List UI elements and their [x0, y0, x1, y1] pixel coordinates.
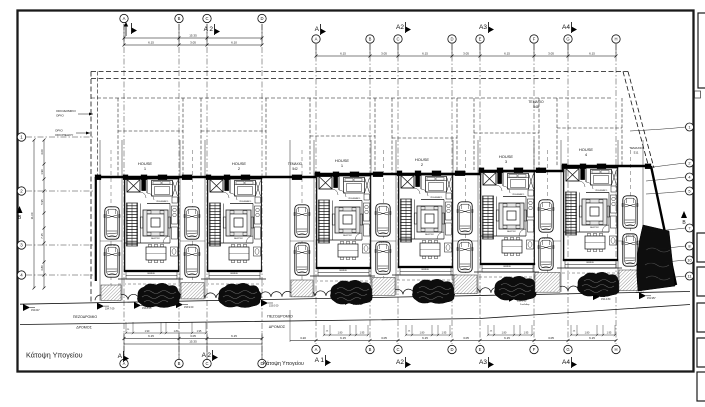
grid bubble C top (left block): [203, 14, 211, 22]
svg-text:6.15: 6.15: [422, 52, 428, 56]
plot boundary dashed diagonal (double): [628, 72, 654, 169]
grid bubble D top (left block): [258, 14, 266, 22]
grid bubble C bottom (left block): [203, 359, 211, 367]
wall pier: [562, 164, 567, 169]
svg-text:152.9 50: 152.9 50: [298, 243, 307, 245]
right grid bubble 7: [686, 224, 694, 232]
svg-text:6.15: 6.15: [148, 334, 154, 338]
svg-text:A4: A4: [562, 359, 570, 366]
svg-text:A: A: [315, 347, 318, 352]
yard dashed boundary house 6: [557, 127, 622, 129]
svg-text:3.05: 3.05: [381, 52, 387, 56]
grid bubble B top (right block): [366, 35, 374, 43]
svg-text:1.90: 1.90: [145, 330, 150, 333]
leader for right bubble 1: [630, 127, 686, 131]
leader for right bubble 11: [646, 276, 686, 279]
wall pier: [479, 168, 484, 173]
svg-text:A4: A4: [562, 24, 570, 31]
svg-text:Κάτοψη Υπογείου: Κάτοψη Υπογείου: [26, 351, 83, 360]
bottom micro dimension rows (right block): [324, 334, 368, 336]
svg-text:5: 5: [688, 189, 690, 194]
garden planting blob house 3: [330, 280, 373, 304]
svg-text:2: 2: [688, 161, 690, 166]
garden planting blob house 4: [412, 279, 455, 303]
grid line B (right block): [369, 44, 371, 344]
wall pier: [333, 172, 339, 177]
driveway edge lines gap 0: [99, 140, 101, 301]
svg-text:C: C: [396, 347, 399, 352]
parked car column 7 lower: [622, 234, 638, 266]
right grid bubble 11: [686, 272, 694, 280]
north arrow right: [681, 211, 687, 218]
svg-text:7: 7: [688, 226, 690, 231]
svg-text:15.35: 15.35: [189, 34, 197, 38]
grid bubble B top (left block): [175, 14, 183, 22]
left grid bubble 4: [17, 271, 25, 279]
svg-text:152.180: 152.180: [600, 289, 609, 291]
svg-text:3.20: 3.20: [300, 336, 306, 340]
wall pier: [415, 171, 421, 176]
svg-text:3.80: 3.80: [40, 265, 44, 271]
svg-text:A: A: [315, 26, 320, 33]
wall pier: [241, 175, 250, 180]
building limit dashed horizontal mid: [91, 97, 612, 99]
wall pier: [123, 175, 128, 180]
left grid line 3: [26, 244, 95, 246]
wall pier: [597, 164, 606, 169]
svg-text:154.047: 154.047: [31, 309, 40, 312]
garden planting blob house 1: [137, 283, 180, 307]
parked car column 4 upper: [375, 204, 391, 236]
svg-text:5.95: 5.95: [40, 199, 44, 205]
micro dim stubs right block: [323, 325, 325, 335]
spot level marker at x=183: [176, 301, 183, 308]
svg-text:6.15: 6.15: [589, 52, 595, 56]
svg-text:153.9 00: 153.9 00: [184, 306, 194, 309]
svg-text:ΟΙΚΟΠΕΔΟΥ: ΟΙΚΟΠΕΔΟΥ: [55, 133, 73, 137]
wall pier: [645, 164, 651, 169]
heavy stepped top boundary wall: [95, 166, 651, 177]
svg-text:D: D: [450, 347, 453, 352]
wall pier: [514, 168, 523, 173]
svg-text:8: 8: [688, 244, 690, 249]
right margin stacked box 4: [697, 338, 705, 367]
grid bubble F bottom (right block): [530, 345, 538, 353]
yard dashed boundary house 3: [310, 135, 375, 137]
driveway apron hatch gap 0: [101, 285, 121, 300]
svg-text:ΔΡΟΜΟΣ: ΔΡΟΜΟΣ: [269, 325, 286, 329]
parked car column 7 upper: [622, 196, 638, 228]
spot level marker at x=141: [134, 302, 141, 309]
heavy left boundary wall: [95, 177, 97, 281]
driveway apron hatch gap 6: [619, 270, 642, 291]
svg-text:6.15: 6.15: [340, 52, 346, 56]
garden planting blob house 5: [494, 276, 537, 300]
left grid bubble 3: [17, 241, 25, 249]
right grid bubble 4: [686, 173, 694, 181]
driveway apron hatch gap 3: [372, 278, 395, 296]
svg-text:ΟΡΙΟ: ΟΡΙΟ: [56, 114, 64, 118]
spot level marker at x=434: [427, 296, 434, 303]
spot level marker at x=30: [23, 304, 30, 311]
yard dashed boundary house 5: [474, 132, 539, 134]
house 5 floor plan: [480, 170, 535, 272]
grid bubble A top (left block): [120, 14, 128, 22]
right grid bubble 2: [686, 159, 694, 167]
spot level marker at x=646: [639, 292, 646, 299]
top dimension line (right block): [316, 55, 616, 57]
svg-text:D: D: [450, 37, 453, 42]
parked car column 6 lower: [538, 238, 554, 270]
svg-text:G: G: [566, 347, 569, 352]
grid bubble G top (right block): [564, 35, 572, 43]
wall pier: [397, 171, 402, 176]
svg-text:A 2: A 2: [202, 352, 212, 359]
svg-text:542: 542: [292, 167, 298, 171]
grid line C (left block): [206, 24, 208, 359]
spot level marker at x=600: [593, 293, 600, 300]
spot level marker at x=352: [345, 298, 352, 305]
svg-text:3.05: 3.05: [548, 336, 554, 340]
wall pier: [95, 175, 101, 180]
grid bubble E bottom (right block): [476, 345, 484, 353]
svg-text:ΠΕΖΟΔΡΟΜΙΟ: ΠΕΖΟΔΡΟΜΙΟ: [73, 315, 97, 319]
grid bubble C bottom (right block): [394, 345, 402, 353]
grid bubble B bottom (left block): [175, 359, 183, 367]
svg-text:1.80: 1.80: [585, 332, 590, 335]
leader for right bubble 8: [646, 246, 686, 250]
heavy diagonal right plot boundary: [651, 166, 676, 285]
wall pier: [350, 172, 359, 177]
right margin stacked box 3: [697, 303, 705, 332]
house 4 floor plan: [398, 173, 453, 275]
svg-text:E: E: [479, 37, 482, 42]
svg-text:11: 11: [687, 274, 691, 279]
svg-text:A: A: [123, 16, 126, 21]
svg-text:ΤΕΜΑΧΙΟ: ΤΕΜΑΧΙΟ: [629, 146, 643, 150]
grid line B (left block): [178, 24, 180, 359]
parked car column 1 lower: [104, 245, 120, 277]
driveway edge lines gap 2: [289, 140, 291, 297]
parked car column 2 upper: [184, 207, 200, 239]
svg-text:6.15: 6.15: [504, 52, 510, 56]
svg-text:H: H: [614, 347, 617, 352]
leader for right bubble 4: [646, 177, 686, 181]
svg-text:3.05: 3.05: [463, 52, 469, 56]
svg-text:1.95: 1.95: [197, 330, 202, 333]
grid line F (right block): [533, 44, 535, 344]
road edge line: [20, 305, 690, 325]
parked car column 5 lower: [457, 240, 473, 272]
svg-text:ΤΕΜΑΧΙΟ: ΤΕΜΑΧΙΟ: [528, 100, 544, 104]
parked car column 5 upper: [457, 202, 473, 234]
svg-text:154.7 09: 154.7 09: [105, 308, 115, 311]
driveway apron hatch gap 4: [454, 275, 477, 294]
svg-text:C: C: [205, 16, 208, 21]
svg-text:ΠΕΖΟΔΡΟΜΙΟ: ΠΕΖΟΔΡΟΜΙΟ: [267, 315, 293, 319]
wall pier: [182, 175, 192, 180]
svg-text:ΟΡΙΟ: ΟΡΙΟ: [55, 129, 63, 133]
svg-text:15.35: 15.35: [189, 340, 197, 344]
svg-text:3.05: 3.05: [381, 336, 387, 340]
svg-text:11.60: 11.60: [30, 212, 34, 219]
svg-text:153.1 00: 153.1 00: [188, 245, 197, 247]
svg-text:A3: A3: [479, 24, 487, 31]
driveway edge lines gap 1: [179, 140, 181, 299]
svg-text:A: A: [315, 37, 318, 42]
svg-text:ΤΕΜΑΧΙΟ: ΤΕΜΑΧΙΟ: [288, 162, 303, 166]
svg-text:1.95: 1.95: [607, 332, 612, 335]
spot level marker at x=104: [97, 303, 104, 310]
svg-text:A: A: [118, 353, 123, 360]
parked car column 6 upper: [538, 200, 554, 232]
svg-text:152.8 50: 152.8 50: [461, 240, 470, 242]
plot boundary dashed left vertical: [90, 72, 92, 303]
wall pier: [315, 172, 320, 177]
svg-text:Συνδεδεμ.: Συνδεδεμ.: [520, 304, 530, 306]
svg-text:6.15: 6.15: [422, 336, 428, 340]
grid line A (right block): [315, 44, 317, 344]
yard dashed boundary house 4: [392, 137, 457, 139]
svg-text:153.1 00: 153.1 00: [107, 245, 116, 247]
svg-text:B: B: [369, 37, 372, 42]
svg-text:4.00: 4.00: [40, 149, 44, 155]
svg-text:152.7 50: 152.7 50: [626, 235, 635, 237]
driveway apron hatch gap 1: [181, 283, 204, 299]
svg-text:C: C: [396, 37, 399, 42]
svg-text:1.90: 1.90: [40, 169, 44, 175]
house 3 floor plan: [316, 174, 371, 276]
svg-text:B: B: [178, 361, 181, 366]
svg-text:153.0 00: 153.0 00: [269, 304, 279, 307]
grid line D (left block): [261, 24, 263, 359]
svg-text:6.15: 6.15: [231, 334, 237, 338]
svg-text:A 1: A 1: [315, 357, 325, 364]
svg-text:7.15: 7.15: [40, 233, 44, 239]
driveway apron hatch gap 2: [291, 280, 313, 297]
spot level marker at x=516: [509, 295, 516, 302]
svg-text:B: B: [369, 347, 372, 352]
svg-text:1.80: 1.80: [420, 332, 425, 335]
wall pier: [432, 171, 441, 176]
yard dashed boundary house 2: [201, 130, 266, 132]
driveway edge lines gap 6: [617, 140, 619, 291]
svg-text:151.957: 151.957: [636, 292, 645, 294]
grid bubble H top (right block): [612, 35, 620, 43]
svg-text:C: C: [205, 361, 208, 366]
leader for right bubble 2: [646, 163, 686, 168]
svg-text:A2: A2: [396, 359, 404, 366]
left grid line 4: [26, 274, 95, 276]
bottom micro dimension row (left block): [126, 332, 206, 334]
grid line C (right block): [397, 44, 399, 344]
grid bubble A bottom (right block): [312, 345, 320, 353]
svg-text:A 2: A 2: [204, 26, 214, 33]
wall pier: [455, 171, 465, 176]
right grid bubble 1: [686, 123, 694, 131]
left grid bubble 1: [17, 133, 25, 141]
wall pier: [497, 168, 503, 173]
left grid bubble 2: [17, 187, 25, 195]
driveway edge lines gap 3: [370, 140, 372, 296]
right grid bubble 5: [686, 187, 694, 195]
driveway apron hatch gap 5: [535, 273, 560, 293]
svg-text:D: D: [260, 16, 263, 21]
right margin panel tall box: [698, 13, 705, 88]
bottom dimension row (right block): [290, 340, 616, 342]
svg-text:1.95: 1.95: [442, 332, 447, 335]
right grid bubble 10: [686, 256, 694, 264]
svg-text:1.95: 1.95: [524, 332, 529, 335]
parked car column 2 lower: [184, 245, 200, 277]
right margin stacked box 2: [697, 267, 705, 296]
right margin stacked box 5: [697, 372, 705, 401]
parked car column 1 upper: [104, 207, 120, 239]
svg-text:6.15: 6.15: [589, 336, 595, 340]
leader for right bubble 10: [646, 260, 686, 263]
right grid bubble 8: [686, 242, 694, 250]
svg-text:F: F: [533, 37, 536, 42]
wall pier: [158, 175, 167, 180]
grid bubble A top (right block): [312, 35, 320, 43]
grid bubble D bottom (left block): [258, 359, 266, 367]
svg-text:A3: A3: [479, 359, 487, 366]
left vertical dimension chain: [43, 140, 45, 288]
leader for right bubble 7: [646, 228, 686, 232]
left grid line 2: [26, 190, 95, 192]
left grid line 1: [26, 136, 95, 138]
grid line A (left block): [123, 24, 125, 359]
svg-text:ΟΙΚΟΔΟΜΙΚΟ: ΟΙΚΟΔΟΜΙΚΟ: [56, 109, 76, 113]
leader for right bubble 5: [646, 191, 686, 194]
grid bubble C top (right block): [394, 35, 402, 43]
driveway edge lines gap 5: [533, 140, 535, 292]
grid bubble F top (right block): [530, 35, 538, 43]
svg-text:G: G: [566, 37, 569, 42]
svg-text:A: A: [123, 361, 126, 366]
parked car column 4 lower: [375, 242, 391, 274]
svg-text:F: F: [533, 347, 536, 352]
svg-text:H: H: [614, 37, 617, 42]
svg-text:6.10: 6.10: [231, 41, 237, 45]
svg-text:3.05: 3.05: [548, 52, 554, 56]
grid line H (right block): [615, 44, 617, 344]
garden planting blob house 2: [218, 283, 261, 307]
grid line E (right block): [479, 44, 481, 344]
sidewalk edge line: [20, 292, 690, 305]
grid bubble A bottom (left block): [120, 359, 128, 367]
bottom stubs left block: [123, 333, 125, 359]
house 2 floor plan: [207, 177, 262, 279]
svg-text:511: 511: [634, 151, 639, 155]
svg-text:152.8 00: 152.8 00: [542, 238, 551, 240]
grid bubble D bottom (right block): [448, 345, 456, 353]
wall pier: [141, 175, 147, 180]
svg-text:1: 1: [688, 125, 690, 130]
bush scallops along sidewalk: [95, 285, 645, 301]
svg-text:3.05: 3.05: [190, 334, 196, 338]
wall pier: [206, 175, 211, 180]
svg-text:Κάτοψη Υπογείου: Κάτοψη Υπογείου: [263, 360, 304, 367]
svg-text:152.9 00: 152.9 00: [379, 242, 388, 244]
grid bubble B bottom (right block): [366, 345, 374, 353]
wall pier: [292, 175, 302, 180]
svg-text:6.15: 6.15: [504, 336, 510, 340]
svg-text:B: B: [178, 16, 181, 21]
lower retaining wall along gardens: [118, 278, 183, 280]
house 6 floor plan: [563, 166, 618, 268]
wall pier: [536, 168, 546, 173]
bottom dimension row 6.15/3.05 (left block): [124, 338, 262, 340]
svg-text:ΔΡΟΜΟΣ: ΔΡΟΜΟΣ: [76, 326, 92, 330]
svg-text:548: 548: [533, 105, 539, 109]
svg-text:3.05: 3.05: [190, 41, 196, 45]
house 1 floor plan: [124, 177, 179, 279]
svg-text:3.05: 3.05: [463, 336, 469, 340]
svg-text:6.15: 6.15: [340, 336, 346, 340]
right margin stacked box 1: [697, 233, 705, 262]
wall pier: [224, 175, 230, 180]
wall pier: [580, 164, 586, 169]
plot boundary dashed top line: [91, 71, 628, 73]
svg-text:1.80: 1.80: [174, 330, 179, 333]
grid bubble E top (right block): [476, 35, 484, 43]
svg-text:1.80: 1.80: [338, 332, 343, 335]
top dimension line sub (left block): [124, 44, 262, 46]
spot level marker at x=268: [261, 299, 268, 306]
grid line G (right block): [567, 44, 569, 344]
grid bubble G bottom (right block): [564, 345, 572, 353]
svg-text:152.4 80: 152.4 80: [601, 298, 611, 301]
svg-text:1.80: 1.80: [502, 332, 507, 335]
bottom dimension row 15.35 (left block): [124, 343, 262, 345]
building limit dashed line (second): [91, 78, 560, 80]
svg-text:A2: A2: [396, 24, 404, 31]
parked car column 3 lower: [294, 243, 310, 275]
right margin small tab: [695, 91, 701, 98]
svg-text:E: E: [479, 347, 482, 352]
svg-text:151.957: 151.957: [647, 297, 656, 300]
garden planting blob house 6: [577, 272, 620, 296]
svg-text:1.95: 1.95: [360, 332, 365, 335]
grid bubble H bottom (right block): [612, 345, 620, 353]
grid bubble D top (right block): [448, 35, 456, 43]
section arrow + flag top-left at grid A: [125, 23, 127, 36]
micro dim stubs left block: [125, 322, 127, 333]
grid line D (right block): [451, 44, 453, 344]
svg-text:6.15: 6.15: [148, 41, 154, 45]
yard dashed boundary house 1: [118, 130, 183, 132]
top dimension line 15.35 (left block): [124, 37, 262, 39]
right triangular planted area: [637, 225, 675, 291]
wall pier: [373, 172, 383, 177]
driveway edge lines gap 4: [452, 140, 454, 294]
parked car column 3 upper: [294, 205, 310, 237]
north arrow left: [17, 206, 23, 213]
